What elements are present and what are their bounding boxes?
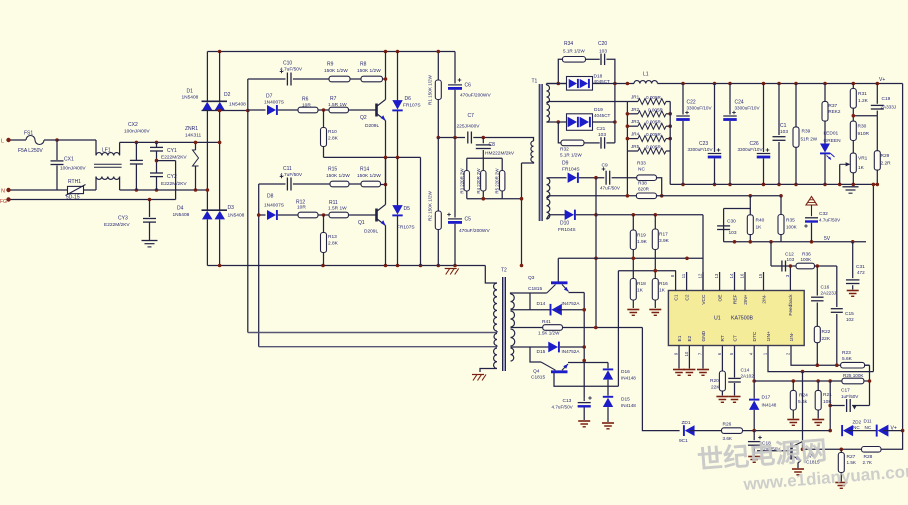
svg-text:0.005R: 0.005R	[646, 120, 661, 125]
node mid rail	[324, 156, 421, 158]
svg-text:FR104S: FR104S	[558, 227, 576, 233]
resistor R16	[652, 279, 658, 301]
ground diode column	[602, 422, 614, 424]
resistor R40	[747, 215, 753, 235]
resistor R22	[814, 326, 820, 342]
svg-text:150K 1/2W: 150K 1/2W	[357, 68, 381, 74]
wire D19 row	[547, 121, 567, 123]
wire bridge mid columns	[206, 111, 208, 211]
wire bridge bottom columns	[206, 219, 208, 265]
svg-text:3300uF/10V: 3300uF/10V	[735, 106, 761, 111]
svg-text:D8: D8	[267, 194, 274, 200]
svg-text:1K: 1K	[756, 225, 763, 231]
svg-text:C20: C20	[598, 41, 607, 47]
wire JR right bus to ground rail	[669, 102, 671, 185]
pin 12 VCC	[702, 272, 704, 291]
node bottom rail primary	[207, 265, 485, 267]
capacitor C5 electrolytic	[448, 218, 462, 220]
wire snubber R34 branch	[558, 59, 562, 83]
capacitor C17	[830, 405, 845, 407]
svg-text:1N4007S: 1N4007S	[264, 203, 284, 209]
svg-text:IN4752A: IN4752A	[562, 349, 581, 354]
rectifier D19 4045CT	[567, 114, 593, 131]
svg-text:D15: D15	[537, 349, 546, 355]
svg-text:1N5408: 1N5408	[228, 213, 245, 219]
node secondary ground rail	[670, 183, 877, 185]
svg-text:F5A L250V: F5A L250V	[18, 148, 43, 154]
svg-text:NC: NC	[853, 425, 860, 430]
diode D10 FR104S	[565, 210, 574, 220]
resistor R33 NC	[637, 175, 657, 181]
svg-text:12: 12	[698, 273, 703, 278]
wire E1 drive vertical	[617, 271, 619, 387]
ground GND pin	[702, 357, 704, 369]
wire T1 primary return	[521, 163, 523, 266]
capacitor CY3	[149, 200, 151, 218]
svg-text:15: 15	[758, 273, 763, 278]
diode D4	[215, 211, 226, 220]
svg-text:R20: R20	[710, 378, 719, 384]
svg-text:D7: D7	[266, 94, 273, 100]
svg-text:D9: D9	[562, 161, 569, 167]
capacitor C1	[778, 84, 780, 136]
resistor R26	[722, 428, 743, 434]
capacitor C9	[605, 171, 607, 185]
svg-text:51R 2W: 51R 2W	[801, 137, 818, 142]
svg-text:4.7uF/50V: 4.7uF/50V	[552, 405, 574, 410]
resistor R27	[840, 449, 842, 452]
svg-text:470uF/200WV: 470uF/200WV	[460, 93, 491, 99]
svg-text:2.8K: 2.8K	[328, 136, 339, 142]
ground Q5	[792, 468, 804, 470]
transistor Q4 C1815	[551, 370, 568, 373]
resistor JR1	[638, 99, 666, 105]
svg-text:NC: NC	[638, 167, 645, 173]
pin 6 RT	[721, 346, 723, 358]
svg-text:R13: R13	[328, 234, 337, 240]
wire L rail LF1 to bridge	[120, 141, 220, 143]
wire Q3 base row	[511, 293, 531, 294]
svg-text:9C1: 9C1	[679, 438, 688, 444]
svg-text:2A333J: 2A333J	[881, 105, 897, 110]
pin 4 DTC	[753, 346, 755, 358]
svg-text:D3: D3	[228, 205, 235, 211]
pin 15 2IN-	[763, 272, 765, 291]
svg-text:CX1: CX1	[64, 157, 74, 163]
wire snubber bottom rail	[467, 198, 522, 200]
resistor R30	[850, 121, 856, 140]
svg-text:3.6K: 3.6K	[723, 436, 733, 441]
inductor L1	[634, 81, 658, 84]
wire output rail to L1	[615, 83, 634, 85]
svg-text:Q1: Q1	[358, 220, 365, 226]
rectifier D18 4045CT	[547, 83, 567, 85]
terminal L	[6, 138, 10, 142]
pin 3 Feedback	[789, 272, 791, 291]
capacitor CY1	[156, 142, 158, 147]
svg-text:RTH1: RTH1	[68, 179, 81, 185]
svg-text:C5: C5	[465, 217, 472, 223]
svg-text:1N4007S: 1N4007S	[264, 100, 284, 106]
wire Q5 collector	[802, 372, 804, 450]
svg-text:REK2: REK2	[828, 109, 840, 114]
svg-text:1N5408: 1N5408	[173, 212, 190, 218]
svg-text:D5: D5	[404, 206, 411, 212]
capacitor C16	[816, 266, 818, 296]
svg-text:22K: 22K	[711, 385, 720, 391]
wire R41 row corner to ZD1	[642, 328, 679, 431]
ground C31	[847, 290, 859, 292]
svg-text:D4: D4	[177, 206, 184, 212]
svg-text:C1815: C1815	[528, 286, 542, 292]
zener ZD2 NC	[843, 425, 853, 436]
svg-text:R24: R24	[799, 393, 808, 399]
svg-text:D11: D11	[864, 419, 873, 424]
wire Q5 base	[757, 450, 789, 452]
svg-text:LED01: LED01	[824, 131, 839, 137]
svg-text:D10: D10	[560, 221, 569, 227]
svg-text:1N5408: 1N5408	[229, 102, 246, 108]
resistor R19	[632, 215, 634, 230]
capacitor C23	[714, 84, 716, 153]
pin 9 E1	[678, 346, 680, 358]
svg-text:910R: 910R	[858, 131, 870, 137]
wire C30 R40 loop	[724, 196, 751, 209]
varistor ZNR1	[195, 142, 197, 150]
wire R23 right bus	[869, 365, 871, 405]
svg-text:C2: C2	[684, 294, 690, 300]
svg-text:CX2: CX2	[128, 122, 138, 128]
capacitor C32	[805, 217, 818, 219]
transistor Q3 C1815	[551, 281, 568, 284]
wire R8 to collector	[383, 78, 386, 80]
svg-text:RT: RT	[720, 335, 726, 341]
resistor R37	[824, 84, 826, 102]
svg-text:R34: R34	[564, 41, 573, 47]
wire C10 branch to T2	[248, 332, 497, 334]
wire OVP column	[872, 184, 874, 371]
diode D2	[215, 102, 226, 111]
resistor R4	[482, 158, 484, 170]
svg-text:22K: 22K	[822, 336, 831, 342]
resistor R17	[654, 215, 656, 229]
svg-text:C1815: C1815	[531, 375, 545, 381]
pin 1 1IN+	[767, 346, 769, 358]
ground R18	[627, 309, 639, 311]
svg-text:R10: R10	[328, 129, 337, 135]
svg-text:GND: GND	[701, 330, 707, 341]
wire T1 center tap to JR bus	[548, 101, 627, 103]
transistor Q2 D209L	[375, 104, 378, 117]
LED01 green	[820, 144, 830, 153]
svg-text:2.2R: 2.2R	[881, 161, 892, 167]
svg-text:14: 14	[729, 273, 734, 278]
svg-text:R18: R18	[637, 281, 646, 287]
svg-text:ZNR1: ZNR1	[185, 126, 198, 132]
svg-text:1.5K: 1.5K	[847, 460, 857, 465]
svg-text:102: 102	[846, 317, 854, 322]
svg-text:Feedback: Feedback	[788, 294, 794, 316]
svg-text:DTC: DTC	[752, 331, 758, 341]
resistor R41	[543, 325, 563, 331]
svg-text:10: 10	[684, 351, 689, 356]
resistor R2	[435, 211, 441, 230]
svg-text:100K: 100K	[786, 225, 798, 230]
svg-text:4.7uF/50V: 4.7uF/50V	[819, 218, 841, 223]
svg-text:D16: D16	[621, 369, 630, 375]
svg-text:10R: 10R	[302, 103, 311, 109]
capacitor C18	[753, 431, 755, 441]
capacitor C13	[583, 399, 585, 401]
svg-text:CY1: CY1	[167, 148, 177, 154]
diode D8	[267, 210, 276, 220]
wire D10 row	[549, 214, 566, 216]
resistor R38	[636, 193, 656, 199]
wire bottom rail to T2 top	[485, 266, 497, 284]
svg-text:103: 103	[598, 132, 606, 138]
svg-text:R4 220R 2W: R4 220R 2W	[476, 168, 481, 194]
node top rail primary	[207, 51, 455, 53]
svg-text:OE: OE	[717, 295, 723, 302]
wire N rail LF1 to bridge	[120, 189, 208, 191]
svg-text:JR2: JR2	[631, 107, 640, 112]
watermark	[696, 435, 908, 494]
svg-text:D15: D15	[621, 397, 630, 403]
svg-text:FR104S: FR104S	[562, 167, 580, 173]
svg-text:VCC: VCC	[701, 294, 707, 305]
pin 2 1IN-	[790, 346, 792, 358]
pin 16 2IN+	[744, 272, 746, 291]
resistor R20 22K	[721, 357, 723, 371]
diode D7	[267, 105, 276, 115]
svg-text:E222M/2KV: E222M/2KV	[104, 222, 130, 228]
svg-text:225J/400V: 225J/400V	[457, 124, 481, 130]
wire JR left bus	[626, 102, 628, 196]
resistor R6	[298, 107, 318, 113]
svg-text:0.005R: 0.005R	[646, 95, 661, 100]
svg-text:3300uF/10V: 3300uF/10V	[738, 147, 764, 152]
wire T1 top tap	[546, 84, 548, 86]
wire drive row A	[558, 257, 703, 259]
svg-text:D1: D1	[187, 89, 194, 95]
wire C19 to R31 bottom	[853, 115, 877, 117]
wire D15 row	[511, 346, 550, 348]
svg-text:100nJ/400V: 100nJ/400V	[60, 166, 86, 172]
capacitor C19	[876, 84, 878, 104]
svg-text:REF: REF	[732, 294, 738, 304]
wire R41 row	[511, 327, 543, 329]
svg-text:4.7uF/50V: 4.7uF/50V	[280, 67, 303, 73]
svg-text:C17: C17	[841, 388, 850, 394]
wire bridge top columns	[206, 52, 208, 102]
ground primary bottom rail	[445, 268, 457, 270]
svg-text:R35: R35	[786, 218, 795, 224]
svg-text:1K: 1K	[637, 288, 644, 294]
svg-text:Q2: Q2	[360, 115, 367, 121]
wire FG line	[11, 199, 176, 201]
resistor R21	[817, 381, 819, 390]
capacitor C22	[682, 84, 684, 115]
resistor R15	[330, 181, 349, 187]
ground C14	[729, 396, 741, 398]
capacitor C7	[467, 132, 469, 144]
wire Q3 collector	[557, 258, 559, 281]
resistor R13	[323, 215, 325, 233]
resistor R28	[862, 447, 882, 453]
capacitor C6 electrolytic	[454, 52, 456, 84]
svg-text:JR5: JR5	[631, 144, 640, 149]
svg-text:1N5408: 1N5408	[182, 95, 199, 101]
transistor Q1 D209L	[375, 209, 378, 222]
svg-text:IN4148: IN4148	[621, 376, 636, 381]
svg-text:E1: E1	[677, 335, 683, 341]
svg-text:5V: 5V	[824, 236, 831, 242]
wire CY midpoint to FG	[155, 159, 159, 163]
wire Q4 base	[530, 347, 541, 362]
svg-text:R17: R17	[659, 232, 668, 238]
diode D16 1N4148	[603, 370, 613, 379]
wire mid to bottom rail	[420, 157, 422, 265]
svg-text:2A223J: 2A223J	[821, 291, 837, 296]
wire R28 to V+ bus	[881, 431, 903, 450]
svg-text:IN4752A: IN4752A	[562, 301, 581, 306]
terminal N	[6, 188, 10, 192]
svg-text:C9: C9	[602, 163, 608, 169]
svg-text:R15: R15	[328, 167, 337, 173]
svg-text:D209L: D209L	[364, 229, 378, 235]
pin 10 E2	[688, 346, 690, 358]
ground R20	[716, 396, 728, 398]
wire C1 stub link	[675, 271, 677, 272]
svg-text:R6: R6	[302, 97, 309, 103]
svg-text:100K: 100K	[801, 257, 813, 262]
zener D15 1N4752A	[548, 342, 558, 353]
capacitor C14	[734, 357, 736, 378]
wire L input	[11, 139, 27, 141]
svg-text:1.5R 1W: 1.5R 1W	[328, 205, 347, 211]
svg-text:1.2K: 1.2K	[858, 98, 869, 104]
wire aux rail from T1	[548, 195, 636, 197]
svg-text:5.1R 1/2W: 5.1R 1/2W	[560, 153, 582, 158]
svg-text:0.005R: 0.005R	[646, 132, 661, 137]
svg-text:1.9K: 1.9K	[637, 239, 648, 245]
wire Q1 emitter	[385, 226, 387, 266]
svg-text:R40: R40	[756, 218, 765, 224]
terminal FG	[6, 197, 10, 201]
svg-text:C24: C24	[735, 99, 744, 105]
svg-text:R9: R9	[327, 62, 334, 68]
wire Q2 collector	[385, 52, 387, 100]
svg-text:5.6K: 5.6K	[842, 356, 853, 362]
svg-text:11: 11	[681, 273, 686, 278]
svg-text:D6: D6	[405, 96, 412, 102]
resistor R39	[795, 84, 797, 127]
svg-text:R8: R8	[360, 62, 367, 68]
svg-text:0.005R: 0.005R	[648, 107, 663, 112]
resistor JR4	[638, 136, 666, 142]
resistor R35	[780, 196, 782, 215]
diode D1	[202, 100, 228, 102]
wire RTH1 to LF1	[84, 189, 97, 191]
svg-text:E222M/2KV: E222M/2KV	[161, 154, 187, 160]
wire V+ bus right	[902, 84, 904, 431]
svg-text:14K311: 14K311	[185, 132, 202, 138]
svg-text:R23: R23	[842, 350, 851, 356]
resistor R8	[361, 76, 383, 82]
svg-text:150K 1/2W: 150K 1/2W	[326, 173, 350, 179]
svg-text:L1: L1	[643, 72, 649, 78]
svg-text:D14: D14	[537, 301, 546, 307]
svg-text:V+: V+	[891, 426, 897, 432]
svg-text:620R: 620R	[638, 187, 650, 192]
wire R7 to Q2 base	[349, 109, 376, 111]
resistor R32	[561, 140, 584, 146]
svg-text:103: 103	[780, 129, 788, 135]
svg-text:C30: C30	[727, 219, 736, 225]
ground CY3	[142, 240, 158, 242]
capacitor C11	[259, 183, 286, 185]
svg-text:N: N	[1, 189, 5, 195]
svg-text:E2: E2	[687, 335, 693, 341]
svg-text:ZD1: ZD1	[682, 420, 691, 426]
resistor R9	[329, 76, 350, 82]
resistor R34	[563, 57, 586, 63]
ground R27	[835, 482, 847, 484]
svg-text:C1: C1	[673, 294, 679, 300]
capacitor C10	[248, 78, 286, 80]
svg-text:VR1: VR1	[858, 156, 868, 162]
resistor R11	[329, 212, 349, 218]
svg-text:R19: R19	[637, 233, 646, 239]
ground output rail earth	[843, 186, 859, 188]
resistor R24	[792, 381, 794, 390]
resistor JR2	[638, 111, 666, 117]
wire R11 to Q1 base	[349, 214, 376, 216]
capacitor CY2	[156, 161, 158, 173]
svg-text:2A102: 2A102	[741, 374, 755, 379]
diode D15b 1N4148	[603, 398, 613, 407]
wire Q1 collector	[385, 157, 387, 204]
svg-text:U1: U1	[714, 316, 721, 322]
svg-text:R22: R22	[822, 329, 831, 335]
svg-text:150K 1/2W: 150K 1/2W	[357, 173, 381, 179]
svg-text:C32: C32	[819, 211, 828, 217]
svg-text:C8: C8	[489, 142, 496, 148]
wire fuse to CX1 node	[44, 139, 57, 141]
resistor R18	[630, 279, 636, 301]
diode D11 NC	[878, 425, 889, 437]
pin 11 C2	[686, 272, 688, 291]
wire C11 branch to T2	[259, 346, 497, 348]
capacitor C20	[600, 54, 602, 66]
resistor R29	[876, 116, 878, 151]
svg-text:103: 103	[729, 230, 737, 236]
wire L rail to LF1	[57, 139, 96, 141]
resistor R31	[852, 84, 854, 89]
svg-text:1IN+: 1IN+	[766, 331, 772, 341]
svg-text:Q4: Q4	[533, 369, 540, 375]
svg-text:C6: C6	[465, 83, 472, 89]
svg-text:CY3: CY3	[118, 216, 128, 222]
wire R28 row	[803, 448, 862, 450]
svg-text:100nJ/400V: 100nJ/400V	[124, 129, 150, 135]
wire N input	[11, 189, 68, 191]
svg-text:C7: C7	[468, 113, 475, 119]
wire aux to VCC column	[702, 215, 704, 290]
svg-text:IN4148: IN4148	[762, 403, 777, 408]
svg-text:3300uF/10V: 3300uF/10V	[688, 147, 714, 152]
svg-text:R41: R41	[542, 319, 551, 325]
